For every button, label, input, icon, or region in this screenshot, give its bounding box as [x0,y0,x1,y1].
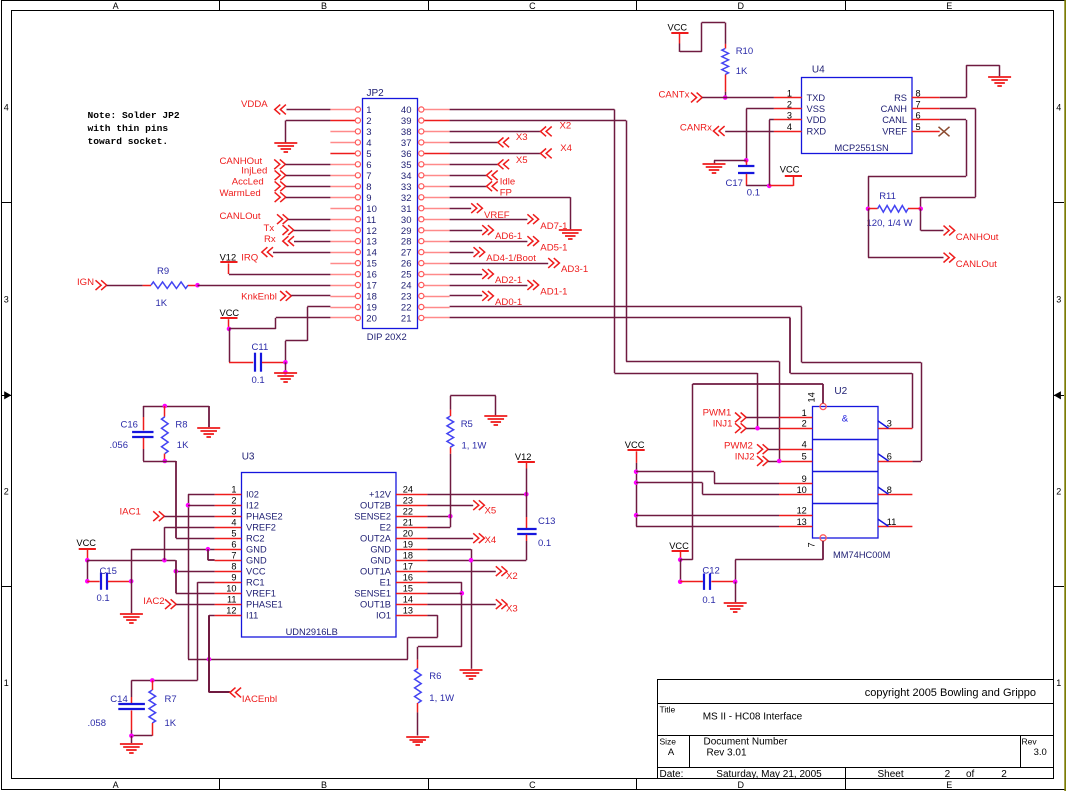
svg-text:AD2-1: AD2-1 [495,275,522,286]
U4 pin 2 VSS [774,108,802,110]
svg-text:4: 4 [4,103,9,113]
svg-text:2: 2 [1001,769,1007,780]
ground at C17 [703,164,726,173]
svg-text:VSS: VSS [807,104,826,114]
svg-text:11: 11 [887,517,897,527]
svg-text:RC2: RC2 [246,534,265,544]
svg-text:0.1: 0.1 [702,595,715,606]
JP2 pin 36 [424,153,450,155]
IC U4 MCP2551SN [802,78,913,154]
svg-text:INJ1: INJ1 [713,419,733,430]
svg-text:8: 8 [887,485,892,495]
svg-text:VREF: VREF [882,126,907,136]
svg-text:23: 23 [401,292,412,303]
junction VREF2 riser [162,558,167,563]
JP2 pin 27 [424,252,450,254]
border mid arrow left [2,395,12,397]
JP2 pin 11 [330,219,355,221]
wire VCC net [87,560,175,562]
wire CANTx to U4 pin 1 [702,97,774,99]
svg-text:PWM2: PWM2 [724,440,753,451]
svg-text:X2: X2 [506,571,518,582]
svg-text:29: 29 [401,226,412,237]
resistor R7 [152,680,154,690]
wire VDDA to JP2 pin 1 [287,109,331,111]
wire INJ1 to U2 pin 2 [746,428,779,430]
junction C11 ground [283,370,288,375]
svg-text:of: of [966,769,975,780]
svg-text:13: 13 [797,517,807,527]
JP2 pin 24 [424,285,450,287]
U2 pin 12 input [779,515,812,517]
svg-text:1, 1W: 1, 1W [429,693,454,704]
JP2 pin 19 [330,307,355,309]
port AD1-1 [450,285,528,287]
svg-text:15: 15 [403,584,413,594]
U2 pin 7 GND bubble [820,535,826,541]
svg-text:1: 1 [4,678,9,688]
wire AccLed to JP2 pin 8 [286,186,331,188]
svg-text:C12: C12 [702,565,719,576]
JP2 pin 13 [330,241,355,243]
svg-text:3: 3 [231,507,236,517]
JP2 pin 20 [330,317,355,319]
JP2 pin 29 [424,230,450,232]
port X5 (JP2 pin 35) [450,164,498,166]
wire to U2 pin 12 [636,515,779,517]
junction INJ2 [777,459,782,464]
svg-text:E: E [946,1,952,11]
svg-text:10: 10 [366,204,377,215]
port AD4-1/Boot [450,252,474,254]
port X2 (JP2 pin 38) [450,131,541,133]
wire Tx to JP2 pin 12 [294,230,331,232]
svg-text:U4: U4 [812,65,825,76]
U3 pin 6 GND [215,549,242,551]
svg-text:3: 3 [1056,294,1061,304]
wire GND (U3 pins 18,19) to ground [427,549,471,551]
U2 pin 2 input [779,428,812,430]
U2 pin 8 output [878,494,912,496]
svg-text:0.1: 0.1 [538,538,551,549]
svg-text:AD4-1/Boot: AD4-1/Boot [486,253,536,264]
svg-text:AD6-1: AD6-1 [495,231,522,242]
svg-text:UDN2916LB: UDN2916LB [286,627,338,637]
svg-text:IAC1: IAC1 [120,507,141,518]
svg-text:39: 39 [401,116,412,127]
JP2 pin 35 [424,164,450,166]
title block frame [658,680,1054,779]
wire R9 to JP2 pin 17 [198,285,331,287]
svg-text:copyright 2005 Bowling and Gri: copyright 2005 Bowling and Grippo [865,687,1036,699]
wire INJ2 to U2 pin 5 [768,461,779,463]
U3 pin 14 OUT1B [396,604,427,606]
port AD3-1 [450,263,549,265]
svg-text:2: 2 [366,116,371,127]
junction IACEnbl net [207,657,212,662]
port IACEnbl [208,615,210,692]
wire C17 to ground [714,160,746,162]
svg-text:19: 19 [403,540,413,550]
svg-text:C11: C11 [252,342,269,353]
wire RC2 net to U3 pin 5 [175,461,177,538]
svg-text:VCC: VCC [669,541,689,551]
ground at C14 [131,736,133,743]
svg-text:27: 27 [401,248,412,259]
JP2 pin 10 [330,208,355,210]
wire VREF1 (U3 pin 10) [175,560,177,593]
wire to U2 pin 9 [636,471,714,473]
border row ticks left [2,202,12,204]
JP2 pin 17 [330,285,355,287]
svg-text:Date:: Date: [660,769,684,780]
svg-text:R8: R8 [175,420,187,431]
svg-text:X2: X2 [560,121,572,132]
svg-text:18: 18 [403,551,413,561]
wire U2 pin 7 to C12/ground [822,541,824,560]
junction R9 right [195,283,200,288]
U2 pin 13 input [779,526,812,528]
svg-text:15: 15 [366,259,377,270]
svg-text:MM74HC00M: MM74HC00M [833,550,890,560]
wire U3 pin 6 GND to C15/ground [131,549,214,551]
svg-text:AD7-1: AD7-1 [540,221,567,232]
svg-text:VCC: VCC [668,23,688,33]
svg-text:+12V: +12V [369,490,392,500]
JP2 pin 15 [330,263,355,265]
svg-text:C15: C15 [100,566,117,577]
svg-text:2: 2 [945,769,951,780]
svg-text:CANRx: CANRx [680,123,712,134]
svg-text:X3: X3 [516,132,528,143]
svg-text:21: 21 [401,314,412,325]
svg-text:40: 40 [401,105,412,116]
svg-text:B: B [321,1,327,11]
svg-text:IRQ: IRQ [241,252,258,263]
resistor R5 [450,454,452,528]
JP2 pin 16 [330,274,355,276]
wire Rx to JP2 pin 13 [294,241,330,243]
JP2 pin 7 [330,175,355,177]
wire IAC1 to U3 pin 3 [164,516,214,518]
svg-text:A: A [113,780,119,790]
ground at R5 [484,416,507,425]
wire E2 (U3 pin 21) [427,527,450,529]
JP2 pin 18 [330,296,355,298]
junction R10/CANTx [723,95,728,100]
svg-text:14: 14 [366,248,377,259]
border row ticks right [1054,202,1065,204]
svg-text:R6: R6 [429,671,441,682]
U2 pin 10 input [779,494,812,496]
U2 pin 1 input [779,417,812,419]
junction U3 pin 7 jog [206,547,211,552]
svg-text:12: 12 [797,506,807,516]
U3 pin 9 RC1 [215,582,242,584]
port X5 (U3 pin 23) [427,505,473,507]
junction V12 [524,492,529,497]
svg-text:22: 22 [403,507,413,517]
svg-text:C14: C14 [110,694,127,705]
svg-text:Note: Solder JP2: Note: Solder JP2 [88,110,180,121]
no-connect X at U4 VREF [939,127,950,137]
svg-text:1K: 1K [156,298,168,309]
svg-text:RS: RS [894,93,907,103]
junction VCC/C12 [678,557,683,562]
U4 pin 5 VREF [912,131,940,133]
svg-text:I11: I11 [246,611,258,621]
svg-text:1K: 1K [177,440,189,451]
svg-text:VCC: VCC [246,567,266,577]
wire U4 CANL to R11 [940,119,966,121]
svg-text:OUT1B: OUT1B [360,600,391,610]
svg-text:R7: R7 [165,694,177,705]
svg-text:DIP 20X2: DIP 20X2 [367,331,407,342]
svg-text:WarmLed: WarmLed [220,188,261,199]
svg-text:2: 2 [231,496,236,506]
U3 pin 15 SENSE1 [396,593,427,595]
svg-text:18: 18 [366,292,377,303]
svg-text:24: 24 [403,485,413,495]
svg-text:B: B [321,780,327,790]
svg-text:36: 36 [401,149,412,160]
U3 pin 1 I02 [215,494,242,496]
wire CANRx to U4 pin 4 [725,131,774,133]
svg-text:6: 6 [916,111,921,121]
svg-text:0.1: 0.1 [747,187,760,198]
capacitor C13 [526,494,528,517]
svg-text:GND: GND [370,545,391,555]
JP2 pin 6 [330,164,355,166]
port CANHOut (R11) [920,209,922,231]
port FP [450,186,487,188]
svg-text:GND: GND [246,556,267,566]
svg-text:A: A [113,1,119,11]
svg-text:1K: 1K [165,718,177,729]
svg-text:&: & [842,414,849,425]
svg-text:2: 2 [1056,486,1061,496]
svg-text:E: E [946,780,952,790]
svg-text:9: 9 [231,573,236,583]
wire WarmLed to JP2 pin 9 [286,197,331,199]
U3 pin 24 +12V [396,494,427,496]
junction INJ1 [755,426,760,431]
svg-text:R9: R9 [157,266,169,277]
JP2 pin 25 [424,274,450,276]
wire SENSE2 (U3 pin 22) [427,516,450,518]
wire JP2 pin 22 to U2 pin 6 output [450,306,802,308]
svg-text:with thin pins: with thin pins [88,123,169,134]
wire CANHOut to JP2 pin 6 [285,164,330,166]
U3 pin 3 PHASE2 [215,516,242,518]
U2 pin 3 output [878,428,912,430]
JP2 pin 2 [330,120,355,122]
wire VCC to JP2 pin 20 [229,328,276,330]
svg-text:V12: V12 [515,452,532,462]
svg-text:13: 13 [366,237,377,248]
JP2 pin 32 [424,197,450,199]
svg-text:IGN: IGN [77,277,94,288]
svg-text:V12: V12 [220,252,237,262]
ground at JP2 pin 32 [559,230,582,239]
svg-text:R5: R5 [461,419,473,430]
svg-text:Size: Size [660,736,677,746]
svg-text:X4: X4 [560,143,572,154]
svg-text:9: 9 [366,193,371,204]
wire VCC to U2 pins 9,10,12,13 [636,463,638,527]
junction VREF1 riser [174,569,179,574]
wire IO1 (U3 pin 13) [427,615,437,617]
svg-text:I02: I02 [246,490,259,500]
wire to U2 pin 10 [636,482,702,484]
wire U4 RS to ground [940,97,967,99]
svg-text:2: 2 [787,100,792,110]
border column ticks bottom [219,778,221,789]
svg-text:31: 31 [401,204,412,215]
svg-text:7: 7 [366,171,371,182]
svg-text:AccLed: AccLed [232,177,264,188]
svg-text:8: 8 [366,182,371,193]
svg-text:Rx: Rx [264,234,276,245]
wire E1 (U3 pin 16) to R6 [427,582,461,584]
svg-text:R11: R11 [879,191,896,202]
svg-text:17: 17 [366,281,377,292]
wire KnkEnbl to JP2 pin 18 [291,295,330,297]
svg-text:16: 16 [403,573,413,583]
JP2 pin 14 [330,252,355,254]
JP2 pin 4 [330,142,355,144]
U4 pin 1 TXD [774,97,802,99]
resistor R10 [725,44,727,49]
svg-text:MS II - HC08 Interface: MS II - HC08 Interface [703,712,803,723]
resistor R8 [163,404,168,409]
svg-text:22: 22 [401,303,412,314]
JP2 pin 26 [424,263,450,265]
svg-text:RXD: RXD [807,126,827,136]
JP2 pin 5 [330,153,355,155]
svg-text:8: 8 [231,562,236,572]
svg-text:34: 34 [401,171,412,182]
svg-text:INJ2: INJ2 [735,452,755,463]
wire IRQ to JP2 pin 14 [273,252,330,254]
svg-text:C: C [529,1,536,11]
border mid arrow right [1054,395,1065,397]
svg-text:10: 10 [226,584,236,594]
junction C14/R7 bottom [129,734,134,739]
svg-text:1: 1 [787,88,792,98]
svg-text:0.1: 0.1 [97,593,110,604]
junction VCC [85,558,90,563]
svg-text:7: 7 [231,551,236,561]
port X2 (U3 pin 17) [427,571,495,573]
port X3 (U3 pin 14) [427,604,495,606]
svg-text:CANHOut: CANHOut [956,232,999,243]
wire IGN to R9 [107,285,143,287]
U2 pin 9 input [779,483,812,485]
svg-text:4: 4 [231,518,236,528]
svg-text:20: 20 [366,314,377,325]
svg-text:VDDA: VDDA [241,99,268,110]
wire R5 to ground [450,396,452,410]
U3 pin 10 VREF1 [215,593,242,595]
capacitor C14 [131,680,133,697]
svg-text:10: 10 [797,485,807,495]
IC U2 MM74HC00M [813,407,879,539]
wire U4 VSS to C17 [746,108,774,110]
svg-text:VCC: VCC [220,308,240,318]
U4 pin 3 VDD [774,119,802,121]
JP2 pin 31 [424,208,450,210]
U3 pin 5 RC2 [215,538,242,540]
svg-text:4: 4 [802,440,807,450]
svg-text:Tx: Tx [264,223,275,234]
port AD0-1 [450,295,483,297]
U3 pin 8 VCC [215,571,242,573]
ground at C15 [120,614,143,623]
port Idle [450,175,487,177]
screen right edge strip [1064,0,1066,791]
svg-text:VDD: VDD [807,115,827,125]
U3 pin 18 GND [396,560,427,562]
svg-text:24: 24 [401,281,412,292]
port AD2-1 [450,274,483,276]
wire U4 CANH to R11 [940,108,976,110]
wire C12 to ground [735,582,737,603]
capacitor C12 [680,560,682,582]
JP2 pin 22 [424,307,450,309]
wire VCC to R10 [679,44,681,52]
svg-text:1, 1W: 1, 1W [462,440,487,451]
wire JP2 pin 32 to ground [450,197,571,199]
wire IAC2 to U3 pin 11 [176,604,214,606]
port CANLOut (R11) [868,209,870,258]
svg-text:33: 33 [401,182,412,193]
svg-text:8: 8 [916,88,921,98]
wire U2 pin 14 VCC net [822,384,824,403]
svg-text:6: 6 [366,160,371,171]
svg-text:4: 4 [1056,103,1061,113]
wire U3 pin 8 VCC row [176,571,215,573]
svg-text:30: 30 [401,215,412,226]
svg-text:A: A [668,747,675,758]
wire SENSE1 (U3 pin 15) [427,593,461,595]
svg-text:IAC2: IAC2 [143,596,164,607]
svg-text:38: 38 [401,127,412,138]
U3 pin 21 E2 [396,527,427,529]
svg-text:5: 5 [916,122,921,132]
wire JP2 pin 39 to U2 INJ2 net [450,120,626,122]
U3 pin 7 GND [215,560,242,562]
U2 pin 11 output [878,526,912,528]
JP2 pin 12 [330,230,355,232]
U2 pin 4 input [779,449,812,451]
svg-text:Rev 3.01: Rev 3.01 [707,748,747,759]
svg-text:C17: C17 [726,178,743,189]
svg-text:Sheet: Sheet [878,769,904,780]
svg-text:3: 3 [887,419,892,429]
svg-text:26: 26 [401,259,412,270]
U3 pin 19 GND [396,549,427,551]
svg-text:CANL: CANL [882,115,907,125]
wire JP2 pin 2 to ground [286,120,331,122]
svg-text:PHASE2: PHASE2 [246,512,283,522]
svg-text:PWM1: PWM1 [703,407,732,418]
wire I02/I12 net (U3 pins 1,2) [188,494,215,496]
svg-text:7: 7 [807,542,817,547]
junction C11 right [283,360,288,365]
resistor R11 [866,207,871,212]
JP2 pin 39 [424,120,450,122]
